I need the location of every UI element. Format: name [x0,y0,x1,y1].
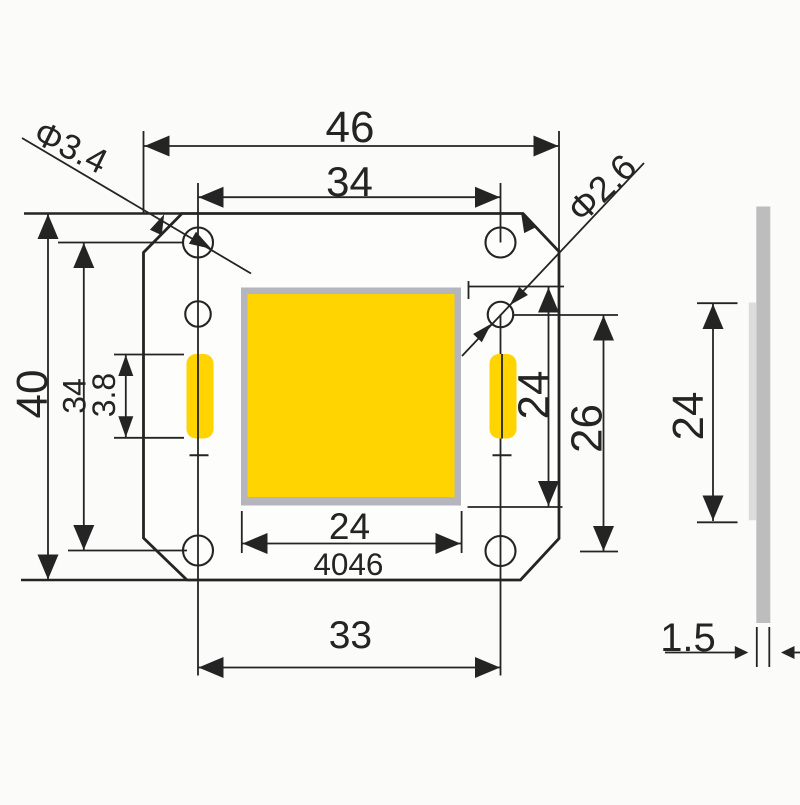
svg-text:34: 34 [326,158,373,205]
svg-text:24: 24 [329,506,370,547]
svg-text:4046: 4046 [313,546,383,582]
svg-text:40: 40 [8,370,57,419]
svg-text:46: 46 [326,103,375,152]
svg-text:24: 24 [509,371,558,420]
svg-text:33: 33 [329,614,372,657]
svg-text:26: 26 [562,404,611,453]
svg-text:3.8: 3.8 [86,373,122,417]
svg-text:24: 24 [664,392,713,441]
svg-text:1.5: 1.5 [660,616,716,660]
